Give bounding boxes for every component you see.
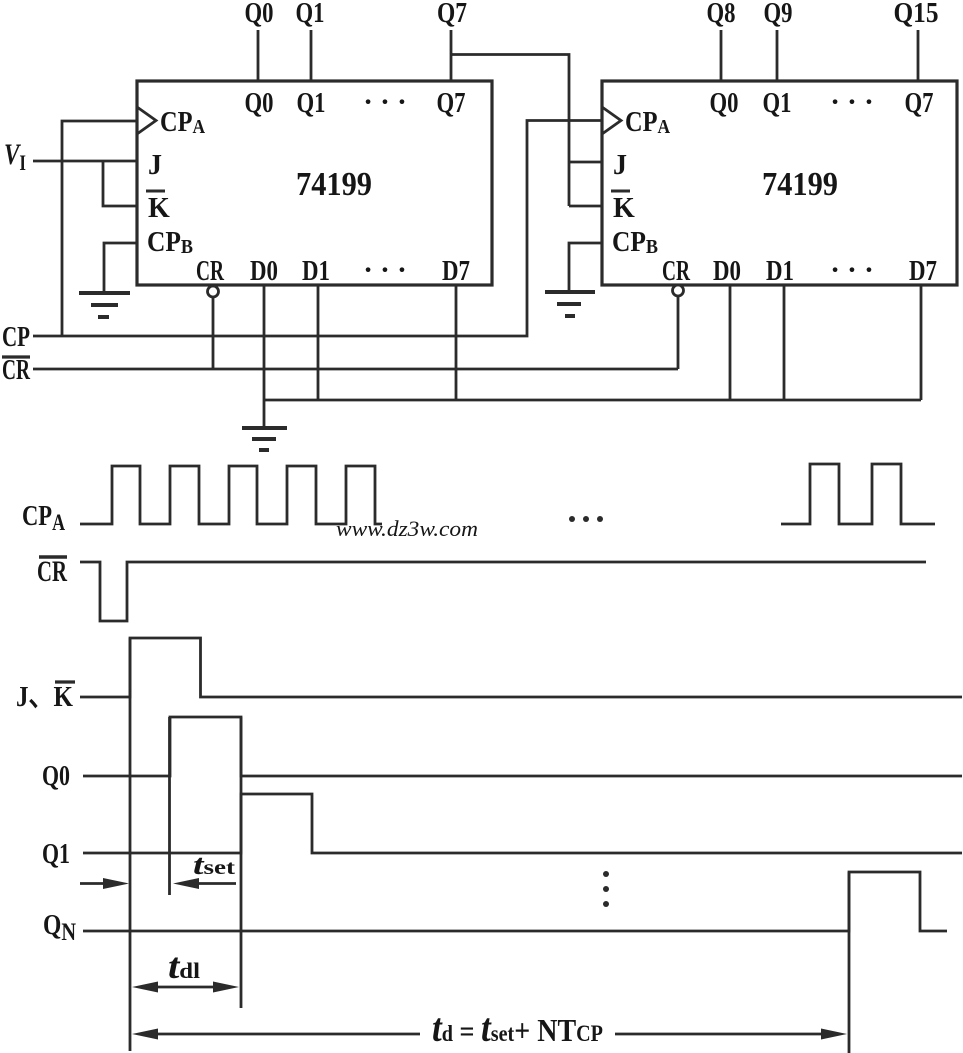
- wire D bus (grounded data inputs): [264, 399, 921, 402]
- wire U1 D1 down: [317, 285, 320, 400]
- svg-text:Q1: Q1: [297, 87, 326, 119]
- overline U1 K: [146, 190, 165, 193]
- svg-text:td = tset+ NTCP: td = tset+ NTCP: [432, 1005, 603, 1050]
- guide line at Q0 falling edge: [240, 717, 243, 1008]
- guide line at Q0 rising edge: [168, 717, 171, 895]
- node Q9 (U2 output stub): [776, 30, 779, 81]
- U1 clock wedge CPA: [137, 107, 156, 134]
- svg-text:CP: CP: [2, 322, 30, 353]
- node Q7 (U1 output stub): [450, 30, 453, 81]
- IC U1 74199 box: [137, 81, 492, 285]
- wire U1 CR to CR-bus: [212, 297, 215, 369]
- pin U2 CR bubble: [673, 285, 684, 296]
- svg-text:Q7: Q7: [437, 0, 467, 29]
- svg-text:CPA: CPA: [22, 500, 65, 535]
- svg-text:Q15: Q15: [894, 0, 939, 29]
- waveform QN: [83, 872, 947, 931]
- svg-text:Q9: Q9: [764, 0, 793, 29]
- svg-text:Q1: Q1: [296, 0, 325, 29]
- pin U1 CR bubble: [208, 286, 219, 297]
- dots QN vertical ellipsis: [603, 871, 609, 877]
- waveform Q0: [83, 717, 962, 776]
- wire U2 CPB to ground: [569, 243, 602, 290]
- td arrow line right: [615, 1033, 828, 1036]
- overline K row: [55, 680, 75, 683]
- arrowhead td right: [821, 1029, 847, 1040]
- ground G3: [242, 428, 287, 450]
- dots CPA ellipsis: [569, 516, 575, 522]
- node Q1 (U1 output stub): [310, 30, 313, 81]
- wire U2 CR to CR-bus: [677, 296, 680, 369]
- svg-text:QN: QN: [43, 909, 76, 946]
- waveform CPA right pulses: [781, 464, 935, 524]
- ground G1: [79, 293, 130, 317]
- svg-text:K: K: [613, 193, 635, 224]
- svg-text:CR: CR: [662, 255, 691, 287]
- svg-text:Q0: Q0: [42, 760, 70, 792]
- svg-text:· · ·: · · ·: [363, 86, 407, 118]
- node Q0 (U1 output stub): [257, 30, 260, 81]
- svg-text:J: J: [148, 150, 162, 181]
- arrowhead tset left-pointing: [173, 878, 199, 889]
- guide line at QN rising edge: [848, 872, 851, 1053]
- svg-text:www.dz3w.com: www.dz3w.com: [336, 516, 478, 541]
- wire to U2 J: [569, 161, 602, 164]
- svg-text:J: J: [613, 150, 627, 181]
- svg-text:74199: 74199: [296, 166, 372, 203]
- svg-text:D7: D7: [442, 255, 470, 287]
- svg-text:D1: D1: [766, 255, 794, 287]
- svg-text:CPA: CPA: [625, 107, 670, 138]
- IC U2 74199 box: [602, 81, 957, 285]
- td1 arrow line: [152, 986, 220, 989]
- wire CP bus: [33, 121, 602, 337]
- wire U1 J to K: [103, 161, 137, 206]
- svg-text:CPB: CPB: [147, 227, 193, 258]
- td arrow line left: [152, 1033, 420, 1036]
- svg-text:CPA: CPA: [160, 107, 205, 138]
- wire U2 D1 down: [783, 285, 786, 400]
- svg-text:D0: D0: [250, 255, 278, 287]
- svg-text:CR: CR: [2, 355, 31, 386]
- node Q15 (U2 output stub): [917, 30, 920, 81]
- svg-text:Q1: Q1: [42, 838, 70, 870]
- svg-text:CR: CR: [196, 255, 225, 287]
- guide line at J,K rising edge: [129, 638, 132, 1051]
- arrowhead td1 left: [132, 982, 158, 993]
- overline U2 K: [611, 190, 630, 193]
- svg-text:D1: D1: [302, 255, 330, 287]
- TIMING DIAGRAM: [80, 464, 962, 1053]
- svg-text:74199: 74199: [762, 166, 838, 203]
- waveform CR with reset pulse: [80, 562, 926, 621]
- arrowhead tset right-pointing: [103, 878, 129, 889]
- wire U1 D7 down: [455, 285, 458, 400]
- svg-text:tdl: tdl: [168, 946, 200, 986]
- overline CR row: [39, 555, 67, 558]
- svg-text:CPB: CPB: [612, 227, 658, 258]
- svg-text:Q7: Q7: [905, 87, 934, 119]
- svg-text:Q0: Q0: [245, 87, 274, 119]
- svg-text:Q8: Q8: [707, 0, 736, 29]
- svg-text:tset: tset: [193, 850, 235, 881]
- svg-text:· · ·: · · ·: [830, 254, 874, 286]
- U2 clock wedge CPA: [602, 107, 621, 134]
- wire U1 Q7 to U2 J,K serial link: [451, 55, 569, 207]
- svg-text:· · ·: · · ·: [363, 254, 407, 286]
- arrowhead td1 right: [213, 982, 239, 993]
- waveform J,K with set pulse: [80, 638, 962, 697]
- svg-text:Q0: Q0: [245, 0, 274, 29]
- svg-text:Q7: Q7: [437, 87, 466, 119]
- svg-text:Q1: Q1: [763, 87, 792, 119]
- wire U1 CPB to ground: [104, 243, 137, 291]
- wire U2 D0 down: [729, 285, 732, 400]
- wire CR bus: [33, 368, 678, 371]
- node Q8 (U2 output stub): [720, 30, 723, 81]
- svg-text:VI: VI: [4, 138, 26, 175]
- arrowhead td left: [132, 1029, 158, 1040]
- ground G2: [545, 292, 595, 316]
- wire U1 D0 to ground: [263, 285, 266, 426]
- wire CP to U1 CPA: [62, 121, 137, 336]
- svg-text:D0: D0: [713, 255, 741, 287]
- wire VI to U1 J: [33, 160, 137, 163]
- svg-text:Q0: Q0: [710, 87, 739, 119]
- svg-text:D7: D7: [909, 255, 937, 287]
- svg-text:CR: CR: [37, 555, 67, 588]
- wire to U2 K: [569, 205, 602, 208]
- wire U2 D7 down: [920, 285, 923, 400]
- tset arrow left: [80, 882, 108, 885]
- overline CR net: [2, 355, 30, 358]
- svg-text:· · ·: · · ·: [830, 86, 874, 118]
- svg-text:J、K: J、K: [16, 681, 73, 713]
- tset arrow right: [193, 882, 236, 885]
- waveform CPA left pulse train: [80, 466, 382, 524]
- waveform Q1: [83, 794, 962, 853]
- svg-text:K: K: [148, 193, 170, 224]
